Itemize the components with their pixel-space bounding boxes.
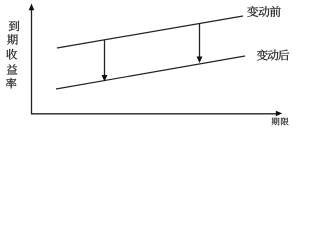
y-axis [29, 4, 35, 115]
shift arrow 1 (left, downward) [102, 41, 108, 82]
x-axis [31, 111, 282, 116]
x-axis label 期限 [272, 118, 289, 126]
yield curve before change (top line) [57, 16, 243, 48]
shift arrow 2 (right, downward) [197, 23, 203, 63]
yield curve after change (bottom line) [56, 56, 245, 89]
curve label 变动后 [257, 50, 289, 61]
curve label 变动前 [247, 6, 281, 17]
y-axis label 到期收益率 (vertical) [6, 21, 19, 89]
